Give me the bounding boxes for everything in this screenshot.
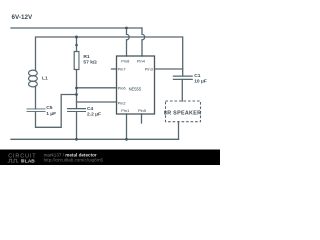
wire Pin8 supply drop with hop <box>127 28 130 56</box>
svg-text:Pin3: Pin3 <box>145 67 154 72</box>
wire C4 bottom lead <box>76 112 78 140</box>
wire Pin1 to ground rail <box>126 114 128 139</box>
wire C1 bottom to speaker <box>181 80 183 102</box>
svg-text:Pin7: Pin7 <box>118 67 127 72</box>
capacitor C5 plates <box>27 109 46 112</box>
junction rail to Pin8 <box>125 27 128 30</box>
node R1 top terminal <box>75 44 78 47</box>
wire Pin4 supply drop with hop <box>142 28 145 56</box>
svg-text:http://circuitlab.com/c/uiq8m5: http://circuitlab.com/c/uiq8m5 <box>44 158 104 163</box>
capacitor C1 plates <box>173 76 193 80</box>
svg-text:6V-12V: 6V-12V <box>12 14 33 21</box>
wire positive supply rail <box>11 27 142 29</box>
pin labels <box>118 59 154 113</box>
svg-text:NE555: NE555 <box>129 87 142 92</box>
wire Pin3 to C1 <box>155 68 183 70</box>
svg-text:Pin5: Pin5 <box>138 108 147 113</box>
svg-text:10 µF: 10 µF <box>194 78 207 84</box>
IC U1 NE555 box <box>117 56 155 114</box>
junction tank net to R1 <box>75 36 78 39</box>
svg-text:2.2 µF: 2.2 µF <box>87 111 101 117</box>
footer bar <box>0 150 220 166</box>
junction Pin1 to ground rail <box>125 138 128 141</box>
wire Pin2 branch <box>77 101 117 103</box>
wire C5 bottom loop <box>36 95 77 128</box>
wire L1 bottom to C5 <box>35 86 37 109</box>
svg-text:L1: L1 <box>42 76 48 82</box>
svg-text:Pin6: Pin6 <box>118 85 127 90</box>
capacitor C4 plates <box>67 109 86 112</box>
svg-text:Pin4: Pin4 <box>137 59 146 64</box>
junction C5 return <box>75 93 78 96</box>
svg-text:8R SPEAKER: 8R SPEAKER <box>164 111 201 117</box>
wire speaker bottom lead <box>178 122 180 140</box>
svg-text:Pin2: Pin2 <box>118 101 127 106</box>
wire R1 top lead <box>76 37 78 52</box>
svg-text:C5: C5 <box>46 105 53 111</box>
resistor R1 <box>74 52 79 70</box>
speaker dashed box <box>166 101 201 122</box>
junction R1 bottom Pin6 <box>75 87 78 90</box>
svg-text:R1: R1 <box>83 54 90 60</box>
svg-text:Pin1: Pin1 <box>121 108 130 113</box>
svg-text:1 µF: 1 µF <box>46 111 56 117</box>
inductor L1 <box>29 70 38 87</box>
svg-text:Pin8: Pin8 <box>121 59 130 64</box>
logo waveform squiggle <box>8 159 19 162</box>
wire Pin6 branch <box>77 87 117 89</box>
svg-text:57 kΩ: 57 kΩ <box>83 60 97 66</box>
wire R1 bottom to C4 top <box>76 70 78 109</box>
logo LAB block <box>21 159 24 162</box>
svg-text:C4: C4 <box>87 106 94 112</box>
wire Pin7 stub <box>112 68 117 70</box>
junction C4 to ground rail <box>75 138 78 141</box>
wire tank net (L1 top / R1 top / Pin3 / C1 top) <box>36 37 183 76</box>
svg-text:C1: C1 <box>194 73 201 79</box>
svg-text:LAB: LAB <box>25 158 35 164</box>
wire Pin5 stub <box>141 114 143 123</box>
wire bottom return rail <box>11 138 179 140</box>
